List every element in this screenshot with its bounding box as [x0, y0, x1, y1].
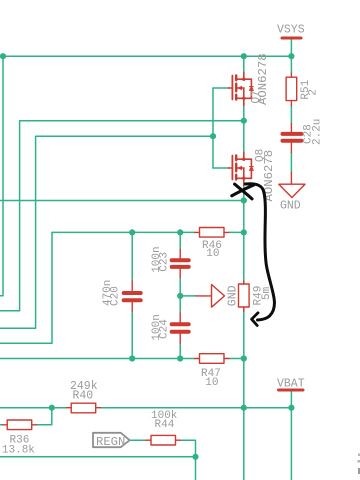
- svg-text:GND: GND: [226, 285, 239, 306]
- svg-text:VSYS: VSYS: [277, 24, 305, 37]
- svg-text:C23: C23: [159, 252, 171, 272]
- svg-text:R44: R44: [155, 419, 175, 431]
- svg-text:AON6278: AON6278: [256, 53, 270, 105]
- svg-text:C20: C20: [109, 286, 121, 306]
- svg-text:C24: C24: [159, 319, 171, 339]
- svg-text:GND: GND: [280, 200, 301, 213]
- svg-text:10: 10: [206, 248, 219, 260]
- svg-text:10: 10: [205, 377, 218, 389]
- svg-text:R40: R40: [73, 389, 94, 402]
- svg-text:2: 2: [308, 89, 320, 96]
- svg-text:13.8k: 13.8k: [2, 444, 35, 456]
- svg-text:VBAT: VBAT: [277, 377, 305, 390]
- svg-text:REGN: REGN: [96, 435, 125, 449]
- svg-text:2.2u: 2.2u: [312, 119, 324, 145]
